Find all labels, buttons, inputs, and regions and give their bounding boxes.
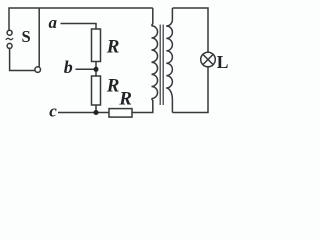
svg-text:R: R [106,75,120,96]
svg-text:R: R [106,37,120,58]
svg-text:R: R [118,88,132,109]
svg-text:S: S [22,27,31,46]
svg-text:b: b [64,57,73,77]
svg-text:c: c [49,101,57,120]
svg-text:a: a [49,13,58,32]
svg-text:L: L [217,52,229,72]
